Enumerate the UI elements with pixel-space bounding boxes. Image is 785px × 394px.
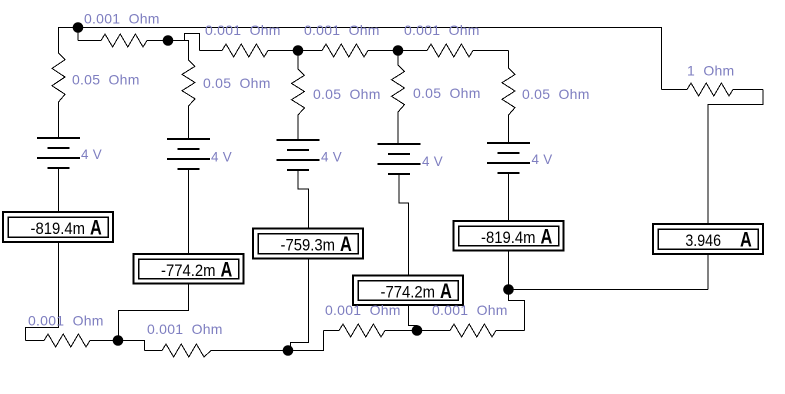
battery V1 4 V [37, 137, 80, 139]
svg-text:-819.4m: -819.4m [31, 219, 86, 238]
node D junction dot [393, 45, 404, 56]
wire ammeter U3 to node F [291, 259, 309, 351]
ammeter U1 reading -819.4m A [3, 212, 113, 242]
wire node C down [297, 51, 299, 70]
svg-text:0.001 Ohm: 0.001 Ohm [205, 22, 281, 38]
svg-text:A: A [221, 259, 233, 282]
svg-text:A: A [740, 229, 752, 252]
svg-text:4 V: 4 V [81, 147, 102, 162]
battery V4 4 V [378, 143, 421, 145]
wire node H to load bottom [509, 289, 709, 291]
wire top bus from node A to load corner [58, 28, 662, 90]
wire ammeter U2 to node E [119, 284, 189, 341]
svg-text:0.001 Ohm: 0.001 Ohm [404, 22, 480, 38]
svg-text:0.001 Ohm: 0.001 Ohm [147, 321, 223, 337]
wire node B to battery 2 branch [168, 41, 189, 61]
wire battery V5 to ammeter U5 [508, 174, 510, 222]
svg-text:A: A [440, 280, 452, 303]
resistor R7 0.001 Ohm (top bus 2) [200, 44, 299, 57]
svg-text:A: A [541, 226, 553, 249]
wire node E to R11 [118, 341, 145, 351]
wire battery V1 top lead [58, 28, 60, 54]
wire ammeter U6 to bottom bus [707, 254, 709, 290]
ammeter U3 reading -759.3m A [253, 229, 363, 259]
resistor R3 0.05 Ohm (battery 3 internal) [292, 69, 305, 140]
node B junction dot [163, 35, 174, 46]
ammeter U5 reading -819.4m A [454, 221, 564, 251]
ammeter U4 reading -774.2m A [353, 276, 463, 306]
svg-text:0.001 Ohm: 0.001 Ohm [28, 313, 104, 329]
svg-text:0.05 Ohm: 0.05 Ohm [72, 72, 140, 88]
resistor R5 0.05 Ohm (battery 5 internal) [502, 68, 515, 144]
battery V2 4 V [167, 138, 210, 140]
node C junction dot [293, 45, 304, 56]
wire load resistor to ammeter U6 [708, 90, 763, 225]
svg-text:0.05 Ohm: 0.05 Ohm [203, 75, 271, 91]
svg-text:4 V: 4 V [321, 150, 342, 165]
node A junction dot [73, 22, 84, 33]
resistor R4 0.05 Ohm (battery 4 internal) [392, 65, 405, 144]
wire node D down [397, 51, 399, 66]
svg-text:4 V: 4 V [422, 154, 443, 169]
svg-text:0.001 Ohm: 0.001 Ohm [432, 302, 508, 318]
wire top bus to battery 5 branch [508, 51, 510, 69]
resistor R14 1 Ohm load [662, 83, 764, 96]
wire node B jog to R7 [185, 34, 200, 51]
svg-text:3.946: 3.946 [685, 231, 721, 250]
svg-text:0.001 Ohm: 0.001 Ohm [325, 302, 401, 318]
svg-text:4 V: 4 V [211, 150, 232, 165]
wire ammeter U1 to bottom bus [26, 242, 59, 341]
svg-text:0.05 Ohm: 0.05 Ohm [522, 86, 590, 102]
wire ammeter U5 to node H [508, 251, 510, 290]
svg-text:0.001 Ohm: 0.001 Ohm [84, 11, 160, 27]
svg-text:4 V: 4 V [532, 152, 553, 167]
svg-text:0.001 Ohm: 0.001 Ohm [304, 22, 380, 38]
ammeter U6 reading 3.946 A [653, 224, 763, 254]
svg-text:-819.4m: -819.4m [481, 228, 536, 247]
node H junction dot [503, 284, 514, 295]
svg-text:0.05 Ohm: 0.05 Ohm [313, 86, 381, 102]
wire ammeter U4 to node G [409, 305, 418, 331]
node E junction dot [113, 335, 124, 346]
resistor R2 0.05 Ohm (battery 2 internal) [182, 60, 195, 139]
ammeter U2 reading -774.2m A [134, 254, 244, 284]
battery V5 4 V [487, 142, 530, 144]
wire battery V2 to ammeter U2 [188, 169, 190, 254]
resistor R1 0.05 Ohm (battery 1 internal) [52, 53, 65, 138]
wire battery V4 to ammeter U4 [399, 174, 409, 276]
svg-text:-759.3m: -759.3m [281, 236, 336, 255]
node F junction dot [283, 345, 294, 356]
resistor R11 0.001 Ohm (bottom bus 2) [145, 344, 289, 357]
resistor R8 0.001 Ohm (top bus 3) [298, 44, 398, 57]
wire battery V1 to ammeter U1 [58, 168, 60, 212]
resistor R6 0.001 Ohm (top bus 1) [78, 34, 168, 47]
wire node A down [77, 28, 79, 41]
svg-text:-774.2m: -774.2m [381, 283, 436, 302]
svg-text:-774.2m: -774.2m [161, 261, 216, 280]
wire R13 up to node H [509, 290, 525, 331]
resistor R10 0.001 Ohm (bottom bus 1) [26, 334, 119, 347]
resistor R13 0.001 Ohm (bottom bus 4) [417, 324, 525, 337]
node G junction dot [412, 325, 423, 336]
resistor R9 0.001 Ohm (top bus 4) [398, 44, 509, 57]
svg-text:0.05 Ohm: 0.05 Ohm [413, 85, 481, 101]
wire battery V3 to ammeter U3 [298, 170, 309, 229]
svg-text:1 Ohm: 1 Ohm [687, 63, 734, 79]
svg-text:A: A [90, 217, 102, 240]
wire node F to R12 [288, 331, 324, 351]
resistor R12 0.001 Ohm (bottom bus 3) [324, 324, 418, 337]
battery V3 4 V [277, 139, 320, 141]
svg-text:A: A [340, 233, 352, 256]
